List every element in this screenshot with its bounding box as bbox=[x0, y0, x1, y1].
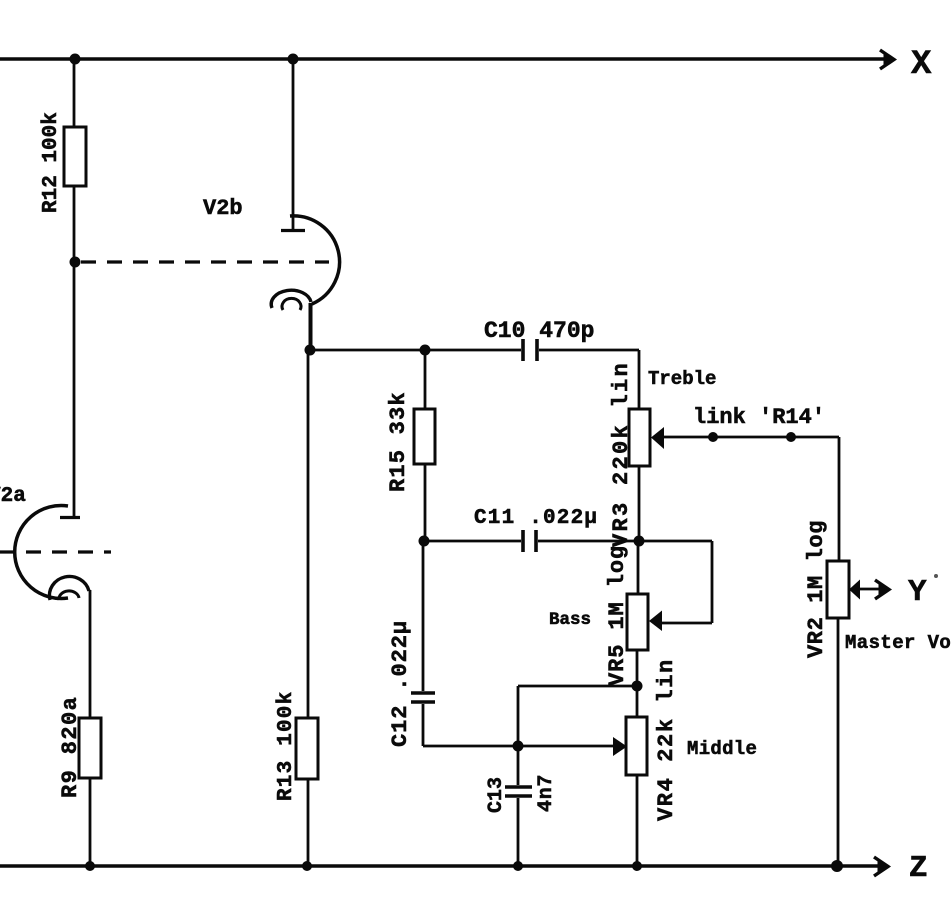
junction dot link right bbox=[786, 432, 796, 442]
wire R15 bottom lead bbox=[424, 464, 427, 541]
svg-text:Z: Z bbox=[909, 851, 928, 886]
junction dot C13/Z bbox=[513, 861, 523, 871]
wire VR5 top lead bbox=[637, 541, 640, 594]
potentiometer VR4 bbox=[626, 717, 647, 775]
wire tone node line bbox=[310, 349, 521, 352]
junction dot C11 node left bbox=[419, 536, 430, 547]
wire R9 bottom lead bbox=[89, 778, 92, 866]
tube V2b envelope bbox=[290, 216, 340, 304]
junction dot top rail / R12 bbox=[70, 54, 81, 65]
svg-text:4n7: 4n7 bbox=[535, 774, 558, 812]
wire R12 bottom lead bbox=[73, 186, 76, 262]
wire C11 line right bbox=[538, 540, 639, 543]
wire V2a cathode lead bbox=[89, 590, 92, 718]
tube V2b cathode curl bbox=[271, 290, 311, 308]
VR3 wiper arrow bbox=[651, 427, 664, 449]
resistor R9 bbox=[79, 718, 101, 778]
svg-text:VR4 22k lin: VR4 22k lin bbox=[654, 658, 679, 821]
wire R15 top lead bbox=[424, 350, 427, 409]
junction dot R9/Z bbox=[85, 861, 95, 871]
potentiometer VR2 bbox=[827, 561, 849, 618]
wire V2b anode lead bbox=[292, 59, 295, 229]
wire VR2 bottom lead bbox=[837, 618, 840, 866]
wire C13 top lead bbox=[517, 746, 520, 785]
resistor R12 bbox=[64, 127, 86, 186]
svg-text:R9 820a: R9 820a bbox=[58, 696, 83, 798]
svg-text:R15 33k: R15 33k bbox=[386, 391, 411, 492]
wire VR4 bottom lead bbox=[636, 775, 639, 866]
svg-text:R13 100k: R13 100k bbox=[275, 691, 298, 801]
wire C11 line left bbox=[424, 540, 521, 543]
resistor R15 bbox=[414, 409, 435, 464]
svg-text:C10 470p: C10 470p bbox=[484, 318, 594, 344]
wire bass loop top bbox=[639, 540, 712, 543]
VR2 wiper arrow bbox=[849, 580, 860, 600]
tube V2b anode plate bbox=[281, 229, 305, 232]
svg-text:X: X bbox=[911, 46, 932, 84]
wire C12 top lead bbox=[422, 541, 425, 691]
VR4 wiper arrow bbox=[613, 737, 627, 756]
svg-text:Master Vo: Master Vo bbox=[845, 632, 951, 654]
node Z arrowhead bbox=[874, 857, 888, 876]
svg-text:V2b: V2b bbox=[203, 196, 243, 221]
tube V2a grid dashed wire bbox=[0, 550, 111, 553]
svg-text:V2a: V2a bbox=[0, 485, 26, 508]
wire bass loop right bbox=[711, 541, 714, 623]
wire R12 top lead bbox=[73, 59, 76, 127]
svg-text:Middle: Middle bbox=[687, 738, 757, 760]
wire V2b cathode lead bbox=[309, 303, 313, 350]
node B junction cathode/R13/tone line bbox=[305, 345, 316, 356]
speck bbox=[934, 574, 938, 578]
svg-text:Y: Y bbox=[908, 575, 927, 610]
junction dot C13 node bbox=[513, 741, 524, 752]
node A junction R12/V2a anode/V2b grid bbox=[70, 257, 81, 268]
VR5 wiper arrow bbox=[649, 611, 662, 632]
wire VR5 bottom lead bbox=[636, 650, 639, 686]
junction dot link left bbox=[708, 432, 718, 442]
svg-text:VR5 1M log: VR5 1M log bbox=[605, 545, 630, 686]
wire Z rail bbox=[0, 864, 878, 867]
junction dot VR5/VR4 bbox=[632, 681, 643, 692]
wire bass loop bottom bbox=[660, 622, 712, 625]
svg-text:VR3 220k lin: VR3 220k lin bbox=[609, 361, 634, 547]
capacitor C12 bbox=[411, 691, 435, 695]
tube V2a cathode curl bbox=[49, 576, 89, 600]
wire V2b grid dashed bbox=[81, 260, 329, 263]
svg-text:R12 100k: R12 100k bbox=[40, 112, 63, 213]
capacitor C11 bbox=[521, 530, 525, 552]
wire VR2 wiper to Y bbox=[858, 588, 879, 591]
wire C12 bottom lead bbox=[422, 704, 425, 746]
capacitor C13 bbox=[505, 785, 532, 789]
junction dot R15 branch bbox=[420, 345, 431, 356]
tube V2a envelope bbox=[15, 506, 68, 599]
junction dot VR2/Z bbox=[831, 860, 843, 872]
junction dot VR4/Z bbox=[632, 861, 642, 871]
wire VR3 top lead bbox=[638, 350, 641, 409]
wire link to VR2 bbox=[838, 437, 841, 561]
junction dot R13/Z bbox=[302, 861, 312, 871]
svg-text:link 'R14': link 'R14' bbox=[693, 405, 825, 430]
svg-text:Bass: Bass bbox=[549, 610, 591, 630]
junction dot top rail / V2b anode bbox=[288, 54, 299, 65]
wire R13 bottom lead bbox=[307, 779, 310, 866]
wire middle link vertical bbox=[517, 686, 520, 746]
wire middle link horizontal bbox=[518, 685, 637, 688]
junction dot C11 node right bbox=[634, 536, 645, 547]
wire VR3 bottom lead bbox=[638, 466, 641, 541]
node Y arrowhead bbox=[875, 580, 889, 599]
svg-text:Treble: Treble bbox=[648, 368, 716, 390]
wire VR4 top lead bbox=[636, 686, 639, 717]
svg-text:VR2 1M log: VR2 1M log bbox=[804, 520, 829, 658]
tube V2a anode plate bbox=[60, 516, 80, 519]
svg-text:C13: C13 bbox=[485, 777, 508, 813]
potentiometer VR5 bbox=[627, 594, 648, 650]
svg-text:C11 .022µ: C11 .022µ bbox=[474, 507, 598, 530]
wire V2a anode lead bbox=[73, 262, 76, 516]
wire C12 to VR4 wiper bbox=[423, 745, 614, 748]
node X arrowhead bbox=[880, 50, 894, 69]
capacitor C10 bbox=[521, 339, 525, 361]
wire R13 top lead bbox=[307, 350, 310, 718]
svg-text:C12 .022µ: C12 .022µ bbox=[388, 620, 413, 747]
resistor R13 bbox=[296, 718, 318, 779]
wire C13 bottom lead bbox=[517, 798, 520, 866]
potentiometer VR3 bbox=[629, 409, 650, 466]
wire link R14 bbox=[660, 436, 839, 439]
wire X rail bbox=[0, 57, 884, 60]
